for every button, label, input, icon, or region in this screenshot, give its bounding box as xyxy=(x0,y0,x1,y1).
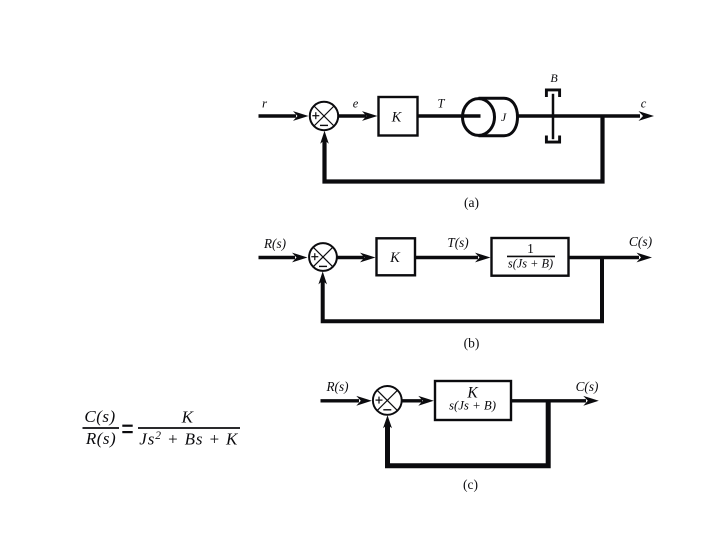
wire T(s) (b) xyxy=(415,253,491,263)
svg-text:K: K xyxy=(389,250,401,266)
label R(s) (c) xyxy=(326,379,349,394)
svg-text:C(s): C(s) xyxy=(84,407,115,426)
label J inside motor (a) xyxy=(501,110,507,124)
wire to block (c) xyxy=(402,396,434,406)
svg-text:R(s): R(s) xyxy=(85,429,116,448)
formula equals sign xyxy=(122,425,132,434)
svg-text:c: c xyxy=(641,96,647,110)
motor inertia J (a) xyxy=(463,98,518,135)
block 1/(s(Js+B)) plant (b) xyxy=(492,238,569,276)
caption (a) xyxy=(464,195,479,210)
wire R(s) input (c) xyxy=(321,396,372,406)
wire feedback loop (c) xyxy=(383,401,548,466)
svg-text:r: r xyxy=(262,96,268,111)
wire feedback loop (a) xyxy=(320,116,602,182)
arrow output c (a) xyxy=(639,111,655,121)
formula left fraction bar xyxy=(83,427,120,429)
wire T shaft into motor (a) xyxy=(418,114,481,117)
svg-text:Js2 + Bs + K: Js2 + Bs + K xyxy=(139,429,239,448)
svg-text:B: B xyxy=(550,71,558,85)
svg-text:(b): (b) xyxy=(464,336,480,351)
block K/(s(Js+B)) (c) xyxy=(435,381,511,420)
wire r input (a) xyxy=(259,111,309,121)
summing junction (a) xyxy=(310,102,338,130)
svg-text:K: K xyxy=(391,110,403,126)
label c (output a) xyxy=(641,96,647,110)
label C(s) (b) xyxy=(629,234,653,249)
wire feedback loop (b) xyxy=(318,258,602,322)
svg-text:C(s): C(s) xyxy=(576,379,599,394)
wire output shaft (a) xyxy=(518,114,641,117)
caption (c) xyxy=(463,477,478,492)
block K (b) xyxy=(377,238,416,275)
formula K numerator xyxy=(181,407,195,426)
svg-text:R(s): R(s) xyxy=(326,379,349,394)
svg-text:T: T xyxy=(438,97,446,111)
damper B bearing symbol (a) xyxy=(546,90,559,142)
svg-text:K: K xyxy=(181,407,195,426)
svg-text:e: e xyxy=(353,96,359,110)
label C(s) (c) xyxy=(576,379,599,394)
label B (damper a) xyxy=(550,71,558,85)
svg-text:(c): (c) xyxy=(463,477,478,492)
label T (torque a) xyxy=(438,97,446,111)
svg-text:1: 1 xyxy=(527,241,534,256)
svg-text:s(Js + B): s(Js + B) xyxy=(449,398,496,412)
svg-text:T(s): T(s) xyxy=(447,235,468,250)
wire to K (b) xyxy=(337,253,375,263)
label e (error signal a) xyxy=(353,96,359,110)
svg-text:(a): (a) xyxy=(464,195,479,210)
summing junction (c) xyxy=(373,386,402,415)
formula R(s) denominator xyxy=(85,429,116,448)
caption (b) xyxy=(464,336,480,351)
wire R(s) input (b) xyxy=(259,253,308,263)
block K amplifier (a) xyxy=(379,97,418,136)
label r (input signal a) xyxy=(262,96,268,111)
formula right fraction bar xyxy=(138,427,240,429)
svg-text:s(Js + B): s(Js + B) xyxy=(508,256,553,270)
svg-text:C(s): C(s) xyxy=(629,234,653,249)
label T(s) (b) xyxy=(447,235,468,250)
wire output C(s) (b) xyxy=(569,253,653,263)
label R(s) (b) xyxy=(263,236,286,251)
svg-text:R(s): R(s) xyxy=(263,236,286,251)
formula C(s)/R(s) numerator xyxy=(84,407,115,426)
wire output C(s) (c) xyxy=(511,396,599,406)
summing junction (b) xyxy=(309,243,337,271)
wire e (a) xyxy=(338,111,377,121)
formula Js^2+Bs+K denominator xyxy=(139,429,239,448)
svg-text:J: J xyxy=(501,110,507,124)
